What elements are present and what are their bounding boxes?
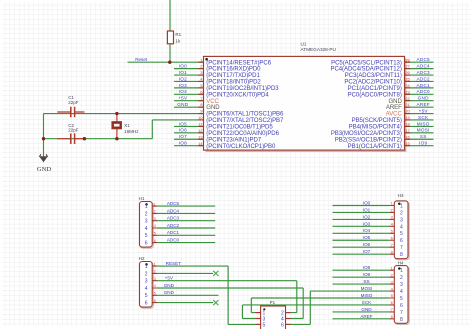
svg-text:ADC0: ADC0	[167, 238, 180, 243]
svg-text:(PCINT7/XTAL2/TOSC2)PB7: (PCINT7/XTAL2/TOSC2)PB7	[206, 118, 284, 124]
svg-text:IO3: IO3	[363, 221, 371, 226]
svg-text:PC5(ADC5/SCL/PCINT13): PC5(ADC5/SCL/PCINT13)	[331, 60, 402, 66]
svg-text:ADC2: ADC2	[417, 76, 431, 81]
svg-text:1: 1	[200, 57, 202, 62]
svg-text:PB4(MISO/PCINT4): PB4(MISO/PCINT4)	[349, 125, 402, 131]
svg-text:3: 3	[145, 219, 148, 225]
svg-text:8: 8	[400, 252, 403, 258]
svg-text:GND: GND	[206, 105, 220, 111]
svg-text:ADC3: ADC3	[167, 216, 180, 221]
svg-text:AREF: AREF	[386, 105, 402, 111]
svg-text:PB2(SS#/OC1B/PCINT2): PB2(SS#/OC1B/PCINT2)	[335, 137, 402, 143]
svg-text:IO8: IO8	[179, 141, 187, 146]
svg-text:(PCINT21/OC0B/T1)PD5: (PCINT21/OC0B/T1)PD5	[206, 125, 273, 131]
svg-text:5: 5	[154, 292, 156, 296]
svg-text:5: 5	[200, 83, 202, 88]
svg-text:PB1(OC1A/PCINT1): PB1(OC1A/PCINT1)	[348, 144, 402, 150]
svg-text:1: 1	[391, 202, 393, 206]
svg-text:6: 6	[391, 236, 393, 240]
svg-text:16MHz: 16MHz	[124, 129, 139, 134]
svg-text:ADC0: ADC0	[417, 89, 431, 94]
svg-text:H3: H3	[398, 193, 404, 198]
svg-text:+5V: +5V	[165, 276, 174, 281]
svg-text:3: 3	[154, 277, 156, 281]
svg-text:1: 1	[154, 202, 156, 206]
svg-text:8: 8	[200, 102, 202, 107]
svg-text:3: 3	[391, 216, 393, 220]
svg-text:22pF: 22pF	[68, 128, 79, 133]
svg-text:SCK: SCK	[362, 300, 372, 305]
svg-text:15: 15	[405, 141, 409, 146]
svg-text:IO2: IO2	[363, 214, 371, 219]
svg-text:8: 8	[400, 317, 403, 323]
svg-text:5: 5	[391, 230, 393, 234]
svg-text:1k: 1k	[175, 38, 181, 43]
svg-text:GND: GND	[389, 99, 403, 105]
svg-text:IO9: IO9	[363, 272, 371, 277]
svg-text:SS: SS	[363, 279, 369, 284]
svg-text:(PCINT23/AIN1)PD7: (PCINT23/AIN1)PD7	[206, 137, 261, 143]
svg-text:1: 1	[400, 268, 403, 274]
svg-text:PB5(SCK/PCINT5): PB5(SCK/PCINT5)	[352, 118, 402, 124]
svg-text:(PCINT22/OC0A/AIN0)PD6: (PCINT22/OC0A/AIN0)PD6	[206, 131, 279, 137]
svg-text:PC0(ADC0/PCINT8): PC0(ADC0/PCINT8)	[348, 92, 402, 98]
svg-text:IO5: IO5	[363, 235, 371, 240]
svg-text:H4: H4	[398, 260, 404, 265]
svg-text:4: 4	[154, 224, 156, 228]
svg-text:IO1: IO1	[179, 70, 187, 75]
svg-text:IO7: IO7	[179, 134, 187, 139]
svg-text:4: 4	[391, 223, 393, 227]
svg-text:GND: GND	[164, 283, 175, 288]
svg-text:7: 7	[200, 96, 202, 101]
svg-text:5: 5	[154, 232, 156, 236]
svg-text:2: 2	[154, 270, 156, 274]
svg-text:27: 27	[405, 64, 409, 69]
svg-text:25: 25	[405, 77, 409, 82]
svg-text:IO2: IO2	[179, 76, 187, 81]
svg-text:GND: GND	[177, 102, 188, 107]
svg-text:IO6: IO6	[179, 128, 187, 133]
svg-text:3: 3	[400, 282, 403, 288]
svg-text:ADC5: ADC5	[167, 201, 180, 206]
svg-text:ADC3: ADC3	[417, 70, 431, 75]
svg-text:1: 1	[154, 262, 156, 266]
svg-text:23: 23	[405, 89, 409, 94]
svg-text:22pF: 22pF	[68, 100, 79, 105]
svg-text:4: 4	[400, 289, 403, 295]
svg-text:MOSI: MOSI	[417, 128, 430, 133]
svg-text:5: 5	[400, 296, 403, 302]
svg-text:AVCC: AVCC	[386, 112, 403, 118]
svg-text:R1: R1	[175, 32, 181, 37]
svg-text:IO0: IO0	[179, 64, 187, 69]
svg-text:19: 19	[405, 115, 409, 120]
svg-text:(PCINT0/CLKO/ICP1)PB0: (PCINT0/CLKO/ICP1)PB0	[206, 144, 276, 150]
svg-text:PC2(ADC2/PCINT10): PC2(ADC2/PCINT10)	[344, 80, 401, 86]
svg-text:(PCINT20/XCK/T0)PD4: (PCINT20/XCK/T0)PD4	[206, 92, 269, 98]
svg-text:6: 6	[391, 301, 393, 305]
svg-text:+5V: +5V	[178, 96, 188, 101]
svg-text:2: 2	[145, 211, 148, 217]
svg-text:7: 7	[391, 308, 393, 312]
svg-text:PC3(ADC3/PCINT11): PC3(ADC3/PCINT11)	[345, 73, 402, 79]
svg-text:2: 2	[391, 209, 393, 213]
svg-text:4: 4	[391, 287, 393, 291]
svg-text:21: 21	[405, 102, 409, 107]
svg-text:8: 8	[391, 315, 393, 319]
svg-text:5: 5	[263, 322, 266, 328]
svg-text:1: 1	[145, 264, 148, 270]
svg-text:3: 3	[200, 70, 202, 75]
svg-text:11: 11	[199, 122, 203, 127]
svg-text:ADC1: ADC1	[417, 83, 431, 88]
svg-text:1: 1	[391, 266, 393, 270]
svg-text:ADC1: ADC1	[167, 230, 180, 235]
svg-text:MISO: MISO	[417, 121, 430, 126]
svg-text:X1: X1	[124, 123, 130, 128]
svg-text:(PCINT19/OC2B/INT1)PD3: (PCINT19/OC2B/INT1)PD3	[206, 86, 279, 92]
svg-text:3: 3	[154, 217, 156, 221]
svg-text:2: 2	[400, 275, 403, 281]
svg-text:PB3(MOSI/OC2A/PCINT3): PB3(MOSI/OC2A/PCINT3)	[331, 131, 402, 137]
svg-text:PC4(ADC4/SDA/PCINT12): PC4(ADC4/SDA/PCINT12)	[330, 67, 401, 73]
svg-text:4: 4	[145, 226, 148, 232]
svg-text:1: 1	[400, 203, 403, 209]
svg-text:IO4: IO4	[179, 89, 187, 94]
svg-text:IO0: IO0	[363, 200, 371, 205]
svg-text:13: 13	[198, 134, 202, 139]
svg-text:5: 5	[145, 233, 148, 239]
svg-text:2: 2	[391, 273, 393, 277]
svg-text:3: 3	[391, 280, 393, 284]
svg-text:IO8: IO8	[363, 265, 371, 270]
svg-text:(PCINT16/RXD)PD0: (PCINT16/RXD)PD0	[206, 67, 261, 73]
svg-text:6: 6	[145, 241, 148, 247]
svg-text:ADC4: ADC4	[167, 208, 180, 213]
svg-text:26: 26	[405, 70, 409, 75]
svg-text:17: 17	[405, 128, 409, 133]
svg-text:ADC2: ADC2	[167, 223, 180, 228]
svg-text:5: 5	[391, 294, 393, 298]
svg-text:GND: GND	[418, 96, 429, 101]
svg-text:6: 6	[200, 89, 202, 94]
svg-text:8: 8	[391, 250, 393, 254]
svg-text:H2: H2	[139, 256, 145, 261]
svg-text:9: 9	[200, 109, 202, 114]
svg-text:SS: SS	[420, 134, 427, 139]
svg-text:IO1: IO1	[363, 207, 371, 212]
svg-text:6: 6	[145, 301, 148, 307]
svg-text:12: 12	[198, 128, 202, 133]
svg-text:2: 2	[400, 210, 403, 216]
svg-text:18: 18	[405, 122, 409, 127]
svg-text:6: 6	[281, 322, 284, 328]
svg-text:PC1(ADC1/PCINT9): PC1(ADC1/PCINT9)	[348, 86, 402, 92]
svg-text:ATMEGA328-PU: ATMEGA328-PU	[301, 47, 337, 52]
svg-text:4: 4	[145, 286, 148, 292]
svg-text:GND: GND	[361, 307, 372, 312]
svg-text:2: 2	[200, 64, 202, 69]
svg-text:22: 22	[405, 96, 409, 101]
svg-text:4: 4	[154, 284, 156, 288]
svg-text:VCC: VCC	[206, 99, 219, 105]
svg-text:2: 2	[154, 210, 156, 214]
svg-text:IO4: IO4	[363, 228, 371, 233]
svg-text:RESET: RESET	[166, 261, 182, 266]
svg-text:6: 6	[154, 299, 156, 303]
svg-text:GND: GND	[164, 290, 175, 295]
svg-text:(PCINT14/RESET#)PC6: (PCINT14/RESET#)PC6	[206, 60, 271, 66]
svg-text:AREF: AREF	[360, 314, 372, 319]
svg-text:(PCINT6/XTAL1/TOSC1)PB6: (PCINT6/XTAL1/TOSC1)PB6	[206, 112, 284, 118]
svg-text:IO6: IO6	[363, 242, 371, 247]
svg-text:5: 5	[400, 231, 403, 237]
svg-text:6: 6	[400, 303, 403, 309]
svg-text:1: 1	[145, 204, 148, 210]
svg-text:7: 7	[391, 243, 393, 247]
svg-text:28: 28	[405, 57, 409, 62]
svg-text:ADC4: ADC4	[417, 64, 431, 69]
svg-text:3: 3	[400, 217, 403, 223]
svg-text:16: 16	[405, 134, 409, 139]
svg-text:ADC5: ADC5	[417, 57, 431, 62]
svg-text:2: 2	[145, 271, 148, 277]
svg-text:4: 4	[400, 224, 403, 230]
svg-text:IO5: IO5	[179, 121, 187, 126]
svg-text:SCK: SCK	[418, 115, 429, 120]
svg-text:6: 6	[154, 239, 156, 243]
svg-text:5: 5	[145, 293, 148, 299]
svg-text:(PCINT17/TXD)PD1: (PCINT17/TXD)PD1	[206, 73, 260, 79]
svg-text:(PCINT18/INT0)PD2: (PCINT18/INT0)PD2	[206, 80, 261, 86]
svg-text:3: 3	[145, 279, 148, 285]
svg-text:GND: GND	[37, 166, 52, 173]
svg-text:IO3: IO3	[179, 83, 187, 88]
svg-text:P1: P1	[270, 300, 276, 305]
svg-text:AREF: AREF	[417, 102, 430, 107]
svg-text:6: 6	[400, 238, 403, 244]
svg-text:Reset: Reset	[135, 57, 148, 62]
svg-text:MISO: MISO	[361, 293, 373, 298]
svg-text:MOSI: MOSI	[361, 286, 373, 291]
svg-text:H1: H1	[139, 196, 145, 201]
svg-text:7: 7	[400, 310, 403, 316]
svg-text:IO9: IO9	[419, 141, 427, 146]
svg-text:IO7: IO7	[363, 249, 371, 254]
svg-text:+5V: +5V	[419, 108, 429, 113]
svg-text:7: 7	[400, 245, 403, 251]
